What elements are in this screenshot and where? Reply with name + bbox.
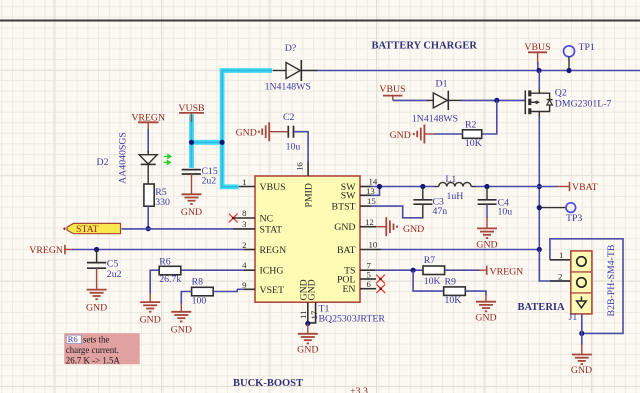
wire R8 left to gnd <box>181 292 191 305</box>
pin 9 VSET <box>244 288 255 290</box>
svg-text:BATTERY CHARGER: BATTERY CHARGER <box>372 40 478 51</box>
svg-text:AA4040SGS: AA4040SGS <box>118 132 129 184</box>
wire to C5 <box>96 250 98 263</box>
svg-text:GND: GND <box>86 303 107 314</box>
wire rail to Q2 drain <box>538 71 540 90</box>
svg-text:1N4148WS: 1N4148WS <box>412 114 458 125</box>
diode D? <box>273 70 286 72</box>
wire R2 to junction <box>482 100 497 134</box>
wire R8 right to pin9 VSET <box>213 291 238 293</box>
svg-text:GND: GND <box>140 315 161 326</box>
wire SW node <box>371 186 436 188</box>
svg-text:TP1: TP1 <box>579 42 595 53</box>
svg-text:STAT: STAT <box>260 224 283 235</box>
no-ERC X pin 8 <box>229 214 238 223</box>
pin 12 GND <box>360 226 376 228</box>
sheet border <box>0 20 640 22</box>
svg-text:VBAT: VBAT <box>572 182 598 193</box>
svg-text:GND: GND <box>181 207 202 218</box>
svg-text:26.7k: 26.7k <box>159 274 181 285</box>
resistor R5 <box>144 184 154 206</box>
pin 10 BAT <box>360 249 381 251</box>
wire BTST jog <box>371 206 423 218</box>
ground J1 <box>572 355 592 365</box>
wire BAT to main vertical <box>381 249 539 251</box>
ground C5 <box>87 290 107 300</box>
J1 shield arrow <box>580 297 582 302</box>
junction BAT <box>537 247 542 252</box>
svg-text:1: 1 <box>242 177 246 187</box>
svg-text:NC: NC <box>260 214 274 225</box>
wire R5 to STAT line <box>147 206 149 229</box>
svg-text:11: 11 <box>298 311 308 319</box>
capacitor C2 <box>287 126 289 138</box>
svg-text:VBUS: VBUS <box>379 84 405 95</box>
pin 11 GND (bottom) <box>307 302 309 323</box>
transistor Q2 <box>525 88 552 117</box>
pin 13 SW <box>360 194 371 196</box>
svg-text:BATERIA: BATERIA <box>518 302 565 313</box>
resistor R6 <box>159 266 181 275</box>
svg-text:10K: 10K <box>445 295 462 306</box>
svg-text:BUCK-BOOST: BUCK-BOOST <box>233 378 303 389</box>
svg-text:17: 17 <box>309 310 319 319</box>
wire R7 to VREGN <box>445 269 480 271</box>
no-ERC X pin 6 <box>376 284 385 293</box>
wire C5 to gnd <box>96 268 98 289</box>
svg-text:R9: R9 <box>445 276 457 287</box>
J1 pin1 circle <box>577 257 586 266</box>
svg-text:D2: D2 <box>97 157 109 168</box>
svg-text:1N4148WS: 1N4148WS <box>265 82 311 93</box>
svg-text:VREGN: VREGN <box>490 266 524 277</box>
ground IC <box>298 334 318 344</box>
svg-text:15: 15 <box>367 196 376 206</box>
svg-text:TP3: TP3 <box>566 213 582 224</box>
junction C3 top <box>420 184 425 189</box>
svg-text:2: 2 <box>242 240 246 250</box>
svg-text:10K: 10K <box>424 276 441 287</box>
svg-text:L1: L1 <box>445 174 456 185</box>
ground C2 (sideways) <box>259 122 269 141</box>
svg-text:8: 8 <box>242 208 247 218</box>
svg-text:D?: D? <box>285 43 296 54</box>
ground C15 <box>182 194 202 204</box>
svg-text:10: 10 <box>369 240 378 250</box>
wire IC to gnd <box>307 324 309 334</box>
svg-text:VBUS: VBUS <box>524 42 550 53</box>
svg-text:10u: 10u <box>286 142 301 153</box>
wire C15 to gnd <box>191 174 193 194</box>
svg-text:10K: 10K <box>465 138 482 149</box>
svg-text:GND: GND <box>306 279 317 300</box>
Q2 body diode <box>547 100 553 105</box>
resistor R9 <box>444 287 466 296</box>
wire junction to gnd <box>581 333 583 345</box>
junction SW <box>377 184 382 189</box>
svg-text:100: 100 <box>192 296 207 307</box>
resistor R2 <box>463 130 482 139</box>
svg-text:C5: C5 <box>107 259 119 270</box>
svg-text:VREGN: VREGN <box>29 245 63 256</box>
wire VREGN to pin2 REGN <box>72 249 244 251</box>
svg-text:GND: GND <box>476 239 497 250</box>
inductor L1 <box>435 186 439 188</box>
resistor R7 <box>423 266 445 275</box>
pin 14 SW <box>360 186 371 188</box>
svg-text:GND: GND <box>297 345 318 356</box>
svg-text:10u: 10u <box>498 206 513 217</box>
svg-text:GND: GND <box>403 224 424 235</box>
wire LED to R5 <box>147 164 149 184</box>
svg-text:2u2: 2u2 <box>107 269 122 280</box>
svg-text:GND: GND <box>475 313 496 324</box>
pin 2 REGN <box>244 249 255 251</box>
ground C4 <box>477 228 497 238</box>
svg-text:STAT: STAT <box>76 224 99 235</box>
wire D1 to gate junction <box>461 99 526 101</box>
wire R2 left to gnd <box>434 133 463 135</box>
wire L1 to VBAT node <box>475 186 539 188</box>
pin 4 ICHG <box>244 269 255 271</box>
capacitor C15 <box>182 169 201 171</box>
svg-text:B2B-PH-SM4-TB: B2B-PH-SM4-TB <box>606 244 617 316</box>
J1 pin2 circle <box>577 278 586 287</box>
junction TP3 <box>537 205 542 210</box>
test point TP3 <box>566 203 576 213</box>
pin 5 POL <box>360 278 376 280</box>
svg-text:REGN: REGN <box>260 245 287 256</box>
svg-text:EN: EN <box>342 284 355 295</box>
svg-text:GND: GND <box>236 127 257 138</box>
wire C4 to gnd <box>486 204 488 218</box>
wire R9 to gnd <box>465 291 486 295</box>
svg-text:16: 16 <box>295 162 305 171</box>
svg-text:9: 9 <box>242 280 247 290</box>
svg-text:26.7 K -> 1.5A: 26.7 K -> 1.5A <box>66 355 121 365</box>
svg-text:+3.3: +3.3 <box>350 386 368 393</box>
capacitor C5 <box>87 262 106 264</box>
svg-text:GND: GND <box>571 365 592 376</box>
ground R8 <box>171 312 191 322</box>
svg-text:R8: R8 <box>192 277 204 288</box>
svg-text:5: 5 <box>367 269 372 279</box>
junction VUSB/C15 <box>189 140 194 145</box>
Q2 arrow <box>533 100 537 104</box>
junction TS <box>411 268 416 273</box>
svg-text:1: 1 <box>559 250 563 260</box>
svg-text:GND: GND <box>390 130 411 141</box>
wire STAT to pin3 <box>122 228 235 230</box>
ground R6 <box>140 302 160 312</box>
junction C5 <box>94 247 99 252</box>
svg-text:2: 2 <box>558 271 562 281</box>
junction rail/Q2 <box>536 68 541 73</box>
wire main vertical VBAT <box>538 116 540 281</box>
pin 3 STAT <box>234 228 256 230</box>
wire C2 left to gnd <box>269 131 288 133</box>
junction IC gnd <box>305 321 310 326</box>
svg-text:4: 4 <box>242 260 247 270</box>
LED arrows <box>164 155 172 165</box>
junction VBAT <box>537 184 542 189</box>
ground pin12 (sideways) <box>376 226 386 228</box>
svg-text:2u2: 2u2 <box>202 176 217 187</box>
svg-text:GND: GND <box>171 325 192 336</box>
wire main vertical to pin2 of J1 <box>539 250 571 282</box>
svg-text:sets the: sets the <box>83 334 109 344</box>
wire J1 pin1 loop <box>550 239 623 334</box>
pin 8 NC <box>234 217 256 219</box>
svg-text:VBUS: VBUS <box>260 182 286 193</box>
junction R5/STAT <box>146 226 151 231</box>
wire TP1 to rail <box>568 56 570 70</box>
pin 16 PMID (top) <box>307 161 309 176</box>
svg-text:BTST: BTST <box>332 202 356 213</box>
svg-text:R7: R7 <box>424 255 436 266</box>
ground R2 (sideways) <box>414 125 425 144</box>
no-ERC X pin 5 <box>376 275 385 284</box>
capacitor C3 <box>422 187 424 200</box>
power port VREGN (right) <box>486 266 488 275</box>
pin 17 GND (bottom) <box>308 302 316 323</box>
capacitor C4 <box>486 187 488 200</box>
pin 7 TS <box>360 269 375 271</box>
note box <box>64 333 140 364</box>
svg-text:J1: J1 <box>569 312 578 323</box>
svg-text:VSET: VSET <box>260 285 285 296</box>
connector J1 pin1 stub <box>550 259 571 261</box>
svg-text:6: 6 <box>367 279 372 289</box>
svg-text:BAT: BAT <box>337 245 356 256</box>
harness STAT tag <box>63 228 65 230</box>
power port VBAT <box>539 186 558 188</box>
wire top rail <box>317 70 640 72</box>
diode D1 <box>427 99 433 101</box>
svg-text:C2: C2 <box>283 112 295 123</box>
junction cyan vertical <box>220 140 225 145</box>
svg-text:D1: D1 <box>436 79 448 90</box>
test point TP1 <box>564 46 575 57</box>
svg-text:12: 12 <box>365 217 374 227</box>
wire shield to junction <box>581 314 583 334</box>
highlighted net VUSB (cyan) <box>192 71 273 187</box>
connector J1 body <box>571 251 592 314</box>
LED D2 <box>147 151 149 155</box>
wire pin13 riser <box>371 187 380 196</box>
wire TS to R7 <box>375 269 423 271</box>
svg-text:GND: GND <box>334 222 355 233</box>
wire TS junction to R9 <box>413 270 444 291</box>
wire C2 right to pin 16 <box>294 132 309 163</box>
IC U/T1 body <box>255 176 360 302</box>
junction J1 shield/gnd <box>579 331 584 336</box>
svg-text:1uH: 1uH <box>447 191 464 202</box>
svg-text:R6: R6 <box>68 334 79 344</box>
svg-text:3: 3 <box>242 219 247 229</box>
wire VBUS port to rail <box>537 62 539 71</box>
pin 15 BTST <box>360 205 371 207</box>
svg-text:BQ25303JRTER: BQ25303JRTER <box>319 314 386 325</box>
wire R6 left to gnd <box>150 270 159 294</box>
junction gate/R2 <box>494 98 499 103</box>
wire R6 right to pin4 ICHG <box>181 269 244 271</box>
ground R9 <box>476 302 496 312</box>
svg-text:R2: R2 <box>465 120 477 131</box>
svg-text:SW: SW <box>341 191 356 202</box>
svg-text:330: 330 <box>155 197 170 208</box>
svg-text:DMG2301L-7: DMG2301L-7 <box>555 99 612 110</box>
wire VBUS to D1 <box>393 99 428 101</box>
pin 6 EN <box>360 288 376 290</box>
svg-text:charge current.: charge current. <box>66 345 119 355</box>
resistor R8 <box>192 287 214 296</box>
svg-text:PMID: PMID <box>304 183 315 208</box>
pin 1 VBUS <box>239 186 255 188</box>
wire VREGN to LED <box>147 129 149 153</box>
svg-text:ICHG: ICHG <box>260 266 284 277</box>
junction rail/TP1 <box>566 68 571 73</box>
svg-text:47n: 47n <box>433 206 448 217</box>
wire TP3 <box>539 207 566 209</box>
svg-text:R6: R6 <box>159 257 171 268</box>
junction C4 top <box>484 184 489 189</box>
svg-text:Q2: Q2 <box>555 88 567 99</box>
